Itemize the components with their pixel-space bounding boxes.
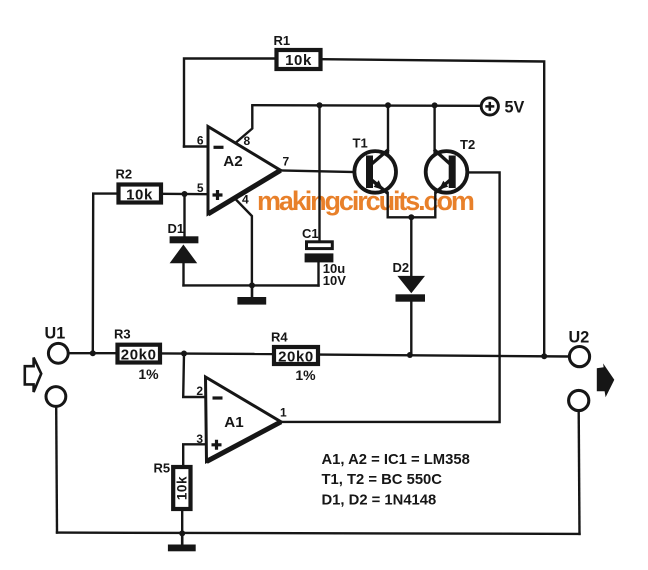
- node U1/R3/R2 junction: [90, 350, 96, 356]
- wire emitter junction bus: [388, 216, 436, 218]
- parts list note: [322, 452, 470, 509]
- svg-text:U1: U1: [45, 325, 66, 343]
- svg-text:5: 5: [197, 181, 204, 195]
- svg-text:R4: R4: [271, 330, 288, 345]
- svg-text:D1, D2 = 1N4148: D1, D2 = 1N4148: [322, 492, 437, 508]
- node R5 ground junction: [179, 530, 185, 536]
- wire T2 collector: [433, 105, 435, 153]
- node ground A2 junction: [249, 282, 255, 288]
- wire D2 anode up: [410, 217, 412, 276]
- resistor R4: [271, 330, 318, 383]
- svg-text:1%: 1%: [138, 366, 159, 382]
- svg-text:10V: 10V: [323, 273, 346, 288]
- capacitor C1: [302, 226, 346, 288]
- wire R2 branch from U1 node: [93, 194, 117, 354]
- ground (A2/C1/D1): [237, 285, 266, 304]
- node T1 collector rail junction: [385, 102, 391, 108]
- wire D1 anode down: [182, 263, 184, 285]
- wire pin5 node to D1: [183, 194, 185, 237]
- wire R3 to R4: [162, 352, 272, 355]
- svg-text:R1: R1: [274, 33, 291, 48]
- svg-text:D2: D2: [393, 260, 410, 275]
- transistor T1: [353, 136, 397, 194]
- diode D1: [168, 221, 199, 263]
- svg-text:R5: R5: [154, 461, 171, 476]
- svg-text:8: 8: [244, 134, 251, 148]
- wire R4 to U2: [320, 355, 568, 357]
- transistor T2: [426, 137, 475, 193]
- wire D2 cathode down: [410, 302, 412, 355]
- input arrow: [25, 358, 41, 392]
- svg-text:5V: 5V: [505, 99, 525, 117]
- wire R2 to A2 pin5: [163, 193, 208, 196]
- wire A2 pin6: [184, 145, 208, 147]
- svg-text:6: 6: [197, 134, 204, 148]
- node R3/R4/A1 junction: [181, 351, 187, 357]
- svg-text:4: 4: [242, 193, 249, 207]
- wire R5 to bottom bus: [181, 511, 183, 533]
- svg-text:A1: A1: [224, 414, 244, 431]
- svg-text:A1, A2 = IC1 = LM358: A1, A2 = IC1 = LM358: [322, 452, 470, 468]
- wire A2 pin4 to ground node: [235, 199, 252, 285]
- node emitter/D2 junction: [408, 214, 414, 220]
- svg-text:2: 2: [196, 384, 203, 398]
- svg-text:T1, T2 = BC 550C: T1, T2 = BC 550C: [322, 472, 443, 488]
- resistor R1: [274, 33, 321, 69]
- op-amp A1: [196, 377, 287, 462]
- wire node to A1 pin2: [183, 354, 205, 398]
- svg-text:20k0: 20k0: [278, 349, 314, 366]
- wire ground bus (D1/C1): [184, 284, 319, 287]
- wire +5V supply rail: [253, 104, 481, 107]
- svg-text:A2: A2: [223, 153, 242, 170]
- svg-text:C1: C1: [302, 226, 319, 241]
- node T2 collector rail junction: [432, 102, 438, 108]
- svg-text:3: 3: [196, 432, 203, 446]
- svg-text:1: 1: [280, 406, 287, 420]
- svg-text:R2: R2: [116, 167, 133, 182]
- wire A2 pin8 diagonal: [237, 105, 253, 142]
- wire C1 bottom: [317, 262, 319, 285]
- wire T2 base riser from A1 output: [281, 172, 500, 422]
- svg-text:T1: T1: [353, 136, 368, 151]
- wire T1 collector: [387, 105, 389, 152]
- wire C1 top branch: [318, 105, 320, 241]
- svg-text:7: 7: [283, 155, 290, 169]
- terminal U2: [569, 329, 590, 411]
- wire R1 left to A2 pin6: [184, 59, 275, 147]
- wire U1 lower stem: [55, 408, 58, 533]
- wire A2 pin7 to T1 base: [281, 170, 367, 172]
- wire A1 pin3 to R5: [183, 444, 205, 465]
- terminal U1: [45, 325, 69, 407]
- wire bottom return bus: [57, 533, 580, 534]
- resistor R3: [114, 327, 160, 382]
- svg-text:U2: U2: [569, 329, 590, 347]
- diode D2: [393, 260, 426, 302]
- svg-text:D1: D1: [168, 221, 185, 236]
- wire T1 emitter: [387, 193, 389, 217]
- resistor R2: [116, 167, 162, 204]
- svg-text:T2: T2: [460, 137, 475, 152]
- node C1 rail junction: [317, 102, 323, 108]
- wire R1 right down to U2 node: [323, 59, 545, 356]
- wire U1 to R3: [69, 352, 115, 354]
- wire T2 emitter: [434, 193, 436, 217]
- svg-text:10k: 10k: [285, 52, 312, 69]
- wire U2 lower stem: [578, 412, 581, 534]
- node R1/U2 junction: [541, 353, 547, 359]
- svg-text:10k: 10k: [175, 476, 190, 500]
- svg-text:R3: R3: [114, 327, 131, 342]
- node A2 pin5/D1 junction: [182, 191, 188, 197]
- svg-text:1%: 1%: [295, 367, 316, 383]
- op-amp A2: [197, 127, 290, 215]
- supply +5V: [481, 98, 524, 117]
- output arrow: [597, 363, 615, 397]
- svg-text:20k0: 20k0: [121, 347, 157, 364]
- ground (R5): [168, 533, 196, 551]
- svg-text:10k: 10k: [126, 187, 153, 204]
- node D2/signal junction: [407, 352, 413, 358]
- resistor R5: [154, 461, 191, 510]
